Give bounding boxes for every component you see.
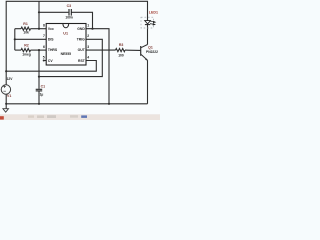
junction C3 net on GND row xyxy=(91,28,93,30)
svg-text:R2: R2 xyxy=(24,43,29,47)
wire THRS net vertical down to C1 top xyxy=(38,50,40,89)
junction THRS net at R2 row xyxy=(38,49,40,51)
LED1 cathode bar xyxy=(145,24,150,26)
LED1 selection dashed box xyxy=(141,17,154,28)
voltage source V1 body xyxy=(1,85,10,94)
svg-text:100n: 100n xyxy=(65,15,73,19)
svg-text:C1: C1 xyxy=(41,85,46,89)
wire C3 right lead to GND net xyxy=(71,12,93,28)
wire C3 left lead xyxy=(39,11,68,13)
junction TRIG loop on C1 vertical xyxy=(38,76,40,78)
wire TRIG pin 2 loop to C1 top xyxy=(39,39,102,76)
wire R3 to Q1 base xyxy=(125,49,141,51)
wire R1 right lead to pin 8 xyxy=(31,28,47,30)
wire V1 minus lead down to ground xyxy=(5,94,7,109)
svg-text:1: 1 xyxy=(87,23,89,27)
svg-text:R3: R3 xyxy=(119,43,124,47)
resistor R1 xyxy=(21,27,31,30)
svg-text:TRIG: TRIG xyxy=(77,37,85,41)
svg-text:5: 5 xyxy=(43,56,45,60)
junction R1 right at pin 8 net xyxy=(38,28,40,30)
capacitor C1 plates xyxy=(36,89,43,91)
junction DIS row on left vertical xyxy=(14,38,16,40)
svg-text:OUT: OUT xyxy=(78,48,86,52)
svg-text:CV: CV xyxy=(48,59,53,63)
LED1 emission arrows xyxy=(150,21,155,25)
wire R1 left lead xyxy=(15,28,21,30)
junction C3 to +V branch xyxy=(38,11,40,13)
svg-text:8: 8 xyxy=(43,23,45,27)
wire Q1 emitter down to ground rail xyxy=(147,60,149,104)
svg-text:R1: R1 xyxy=(23,22,28,26)
bottom taskbar strip xyxy=(0,114,160,120)
wire C1 bottom lead to ground rail xyxy=(38,91,40,104)
svg-text:2: 2 xyxy=(87,34,89,38)
wire R2 left lead xyxy=(15,49,21,51)
wire ground bottom rail xyxy=(6,103,147,105)
svg-text:U1: U1 xyxy=(63,32,68,36)
wire LED cathode to Q1 collector xyxy=(147,25,149,45)
svg-text:12V: 12V xyxy=(7,77,14,81)
capacitor C3 plates xyxy=(69,9,71,16)
transistor Q1 emitter lead xyxy=(141,54,148,60)
wire GND pin 1 row down to ground rail xyxy=(86,29,109,104)
svg-text:RST: RST xyxy=(78,59,86,63)
svg-text:V1: V1 xyxy=(7,94,11,98)
wire R2 right lead to pin 6 THRS xyxy=(31,49,47,51)
junction C1 on ground rail xyxy=(38,103,40,105)
svg-text:1meg: 1meg xyxy=(22,53,31,57)
wire CV pin 5 stub xyxy=(44,60,47,62)
svg-text:100: 100 xyxy=(118,54,124,58)
IC U1 NE555 body xyxy=(46,24,86,66)
wire DIS pin 7 row xyxy=(15,38,46,40)
svg-text:GND: GND xyxy=(77,27,85,31)
junction V1 minus on ground rail xyxy=(5,103,7,105)
transistor Q1 emitter arrowhead xyxy=(145,58,148,60)
svg-text:4: 4 xyxy=(87,56,89,60)
IC notch xyxy=(63,24,69,28)
wire left junction vertical R1-R2 xyxy=(14,29,16,50)
svg-text:6: 6 xyxy=(43,45,45,49)
wire +V branch down to pin 8 Vcc xyxy=(38,1,40,28)
transistor Q1 collector lead xyxy=(141,45,148,48)
junction GND drop on ground rail xyxy=(108,103,110,105)
svg-text:NE555: NE555 xyxy=(61,52,71,56)
svg-text:DIS: DIS xyxy=(48,37,54,41)
svg-text:3: 3 xyxy=(87,45,89,49)
resistor R3 xyxy=(116,49,125,52)
svg-text:LED1: LED1 xyxy=(149,11,158,15)
transistor Q1 base bar xyxy=(140,46,141,56)
wire OUT pin 3 row xyxy=(86,49,116,51)
resistor R2 xyxy=(21,49,31,52)
wire RST pin 4 loop to +V rail xyxy=(6,61,96,72)
svg-text:7: 7 xyxy=(43,34,45,38)
terminal dot CV stub xyxy=(43,60,45,62)
svg-text:THRS: THRS xyxy=(48,48,58,52)
ground symbol xyxy=(3,109,9,113)
svg-text:10k: 10k xyxy=(23,30,29,34)
LED1 diode triangle xyxy=(145,21,151,24)
svg-text:1µ: 1µ xyxy=(40,93,44,97)
svg-text:C3: C3 xyxy=(67,4,72,8)
junction RST loop on +V rail xyxy=(5,70,7,72)
wire +V top rail from V1 plus to LED xyxy=(6,1,147,85)
svg-text:Vcc: Vcc xyxy=(48,27,54,31)
V1 plus and minus marks xyxy=(3,85,6,91)
svg-text:PN2222: PN2222 xyxy=(146,50,158,54)
